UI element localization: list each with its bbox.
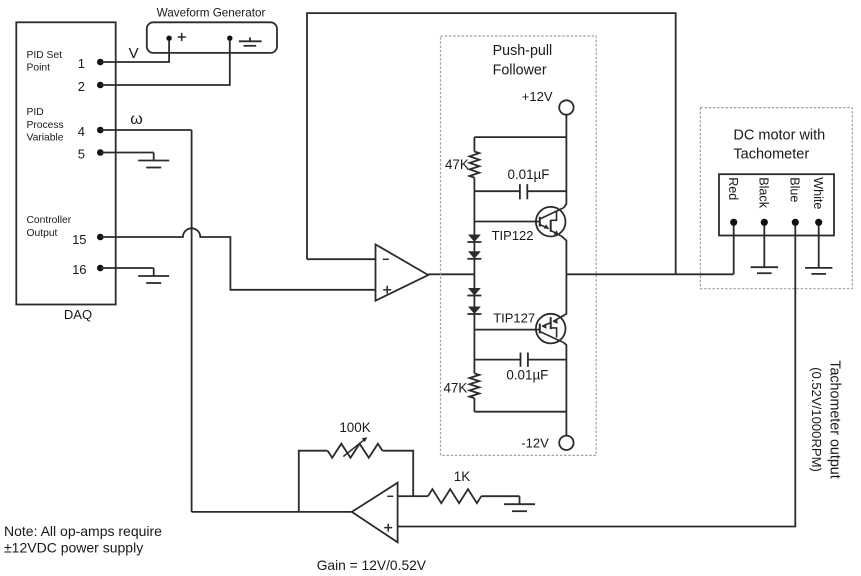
resistor R3 1K	[428, 489, 481, 503]
pot arrow	[343, 440, 364, 457]
svg-text:15: 15	[72, 232, 86, 247]
svg-text:100K: 100K	[339, 420, 370, 435]
wire cap2 row to 47K	[473, 360, 475, 374]
svg-text:DC motor with: DC motor with	[733, 128, 825, 144]
svg-text:5: 5	[78, 147, 85, 162]
motor terminal box	[719, 174, 834, 235]
wire Blue tach output	[398, 226, 796, 527]
diode D4	[468, 307, 481, 315]
wire D1 to D2	[473, 242, 475, 251]
wire pin16 to ground	[100, 267, 153, 269]
svg-text:1: 1	[78, 56, 85, 71]
svg-text:V: V	[129, 45, 139, 62]
DAQ box	[16, 22, 115, 304]
wire Q1 collector	[564, 137, 567, 208]
ground pin5	[153, 153, 155, 161]
diode D1	[468, 235, 481, 243]
wire 47K to cap row	[473, 178, 475, 192]
WG ground terminal dot	[227, 36, 232, 41]
wire pin1 to WG plus	[100, 41, 169, 62]
wire pin5 to ground	[100, 152, 153, 154]
pin 16 dot	[97, 265, 104, 272]
transistor Q1 TIP122	[536, 207, 566, 237]
potentiometer 100K	[328, 444, 383, 458]
wire bottom rail	[474, 411, 566, 413]
capacitor C2 0.01uF	[474, 359, 566, 361]
ground 1K	[519, 496, 521, 504]
wire pot to output	[299, 451, 328, 512]
wire output rail	[566, 273, 733, 275]
wire pin4 to speed node	[100, 129, 191, 131]
svg-text:0.01µF: 0.01µF	[508, 167, 550, 182]
svg-text:Gain = 12V/0.52V: Gain = 12V/0.52V	[317, 558, 427, 573]
svg-text:Red: Red	[726, 177, 740, 200]
svg-text:Note: All op-amps require: Note: All op-amps require	[4, 523, 162, 539]
svg-text:Blue: Blue	[788, 177, 802, 202]
Waveform Generator box	[147, 22, 277, 53]
Push-pull Follower dashed box	[441, 36, 597, 455]
wire pin2 to WG ground	[100, 41, 230, 85]
svg-text:(0.52V/1000RPM): (0.52V/1000RPM)	[809, 367, 824, 472]
svg-text:1K: 1K	[454, 469, 470, 484]
op-amp U2	[352, 483, 398, 543]
wire U2 inv to 1K	[413, 495, 428, 497]
svg-text:DAQ: DAQ	[64, 307, 92, 322]
svg-text:2: 2	[78, 79, 85, 94]
svg-text:PID Set: PID Set	[27, 50, 63, 61]
wire D2 to output node	[473, 259, 475, 288]
wire +12V down	[565, 115, 567, 137]
svg-text:47K: 47K	[443, 381, 467, 396]
svg-text:Tachometer: Tachometer	[733, 147, 809, 163]
wire U1 inverting input	[307, 258, 376, 260]
wire 1K to ground	[481, 495, 519, 497]
motor pin White dot	[815, 219, 822, 226]
wire U2 output rail	[192, 511, 352, 513]
svg-text:±12VDC power supply: ±12VDC power supply	[4, 540, 143, 556]
wire U2 inverting stub	[398, 495, 414, 497]
diode D2	[468, 251, 481, 258]
svg-text:Black: Black	[757, 177, 771, 208]
svg-text:Tachometer output: Tachometer output	[827, 360, 843, 478]
wire 47K to bottom rail	[473, 398, 475, 412]
wire D4 to Q2 base row	[473, 314, 475, 330]
wire Red to output rail	[733, 226, 735, 275]
wire cap row to base row	[473, 191, 475, 221]
wire 47K top lead	[473, 137, 475, 151]
svg-text:4: 4	[78, 124, 85, 139]
ground pin16	[153, 268, 155, 276]
op-amp U1	[376, 244, 429, 300]
svg-text:Controller: Controller	[27, 215, 72, 226]
diode D3	[468, 288, 481, 296]
motor pin Red dot	[730, 219, 737, 226]
wire Q2 base row	[474, 329, 539, 331]
wire Q1 base row	[474, 221, 539, 223]
transistor Q2 TIP127	[536, 314, 566, 344]
svg-text:Point: Point	[27, 63, 51, 74]
pin 5 dot	[97, 149, 104, 156]
wire base row to cap2 row	[473, 330, 475, 360]
WG plus terminal dot	[166, 36, 171, 41]
wire Q2 collector	[564, 343, 567, 436]
svg-text:TIP122: TIP122	[492, 228, 534, 243]
svg-text:Output: Output	[27, 228, 58, 239]
svg-text:Variable: Variable	[27, 133, 64, 144]
svg-text:0.01µF: 0.01µF	[506, 368, 548, 383]
svg-text:Push-pull: Push-pull	[493, 43, 553, 59]
wire U1 output	[428, 273, 474, 275]
svg-text:Waveform Generator: Waveform Generator	[157, 6, 266, 19]
ground Black	[751, 266, 778, 268]
svg-text:16: 16	[72, 262, 86, 277]
svg-text:Follower: Follower	[493, 62, 547, 78]
wire Q2 emitter from output	[560, 274, 566, 317]
wire U2 feedback up	[383, 451, 414, 497]
wire top rail	[474, 136, 566, 138]
svg-text:47K: 47K	[445, 157, 469, 172]
svg-text:-12V: -12V	[521, 436, 549, 451]
svg-text:White: White	[811, 177, 825, 209]
pin 2 dot	[97, 82, 104, 89]
wire base row to D1	[473, 222, 475, 235]
pin 1 dot	[97, 59, 104, 66]
wire U1 feedback loop	[307, 13, 676, 274]
WG plus sign	[178, 33, 186, 41]
svg-text:ω: ω	[130, 111, 143, 128]
svg-text:TIP127: TIP127	[493, 310, 535, 325]
wire Black to ground	[763, 226, 765, 268]
resistor R1 47K	[470, 152, 480, 178]
wire D3 to D4	[473, 296, 475, 307]
capacitor C1 0.01uF	[474, 190, 566, 192]
wire speed vertical	[191, 130, 193, 512]
svg-text:+12V: +12V	[522, 89, 553, 104]
WG ground symbol	[249, 37, 251, 41]
DC motor dashed box	[700, 108, 852, 289]
svg-text:Process: Process	[27, 120, 64, 131]
terminal -12V	[559, 436, 573, 450]
pin 4 dot	[97, 127, 104, 134]
ground White	[805, 267, 832, 269]
motor pin Blue dot	[792, 219, 799, 226]
svg-text:PID: PID	[27, 107, 44, 118]
wire pin15 with hop	[100, 228, 375, 289]
motor pin Black dot	[761, 219, 768, 226]
wire Q1 emitter to output	[562, 236, 567, 274]
pin 15 dot	[97, 234, 104, 241]
wire White to ground	[818, 226, 820, 268]
terminal +12V	[559, 100, 573, 114]
resistor R2 47K	[470, 373, 480, 398]
